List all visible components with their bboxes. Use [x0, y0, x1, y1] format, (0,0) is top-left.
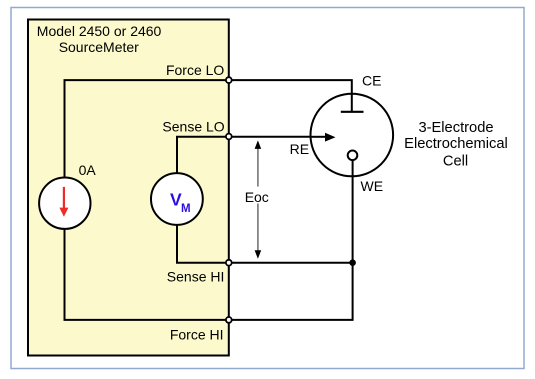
- terminal node Sense HI: [226, 260, 232, 266]
- terminal node Force LO: [226, 77, 232, 83]
- svg-text:Force HI: Force HI: [170, 326, 224, 342]
- svg-text:SourceMeter: SourceMeter: [59, 39, 139, 55]
- svg-text:Sense HI: Sense HI: [167, 269, 225, 285]
- svg-text:0A: 0A: [79, 162, 97, 178]
- wire Sense HI net: voltmeter bottom to junction: [177, 225, 353, 263]
- wire Force LO net: from current source top up, across to CE drop: [65, 80, 352, 178]
- CE electrode bar inside cell: [341, 111, 364, 113]
- svg-text:Force LO: Force LO: [166, 62, 224, 78]
- WE stem inside cell: [352, 160, 354, 176]
- svg-text:CE: CE: [362, 73, 381, 89]
- Eoc measurement arrow: [255, 140, 262, 258]
- label Model 2450 or 2460 SourceMeter: [37, 23, 162, 55]
- svg-text:Electrochemical: Electrochemical: [404, 136, 508, 152]
- junction dot WE/Sense HI: [349, 259, 356, 266]
- terminal node Sense LO: [226, 134, 232, 140]
- svg-text:M: M: [181, 203, 191, 215]
- svg-text:Eoc: Eoc: [245, 189, 269, 205]
- wire Force HI net: current source bottom, across, up to WE: [65, 160, 353, 320]
- CE electrode stem redrawn inside cell: [351, 94, 353, 112]
- terminal node Force HI: [226, 317, 232, 323]
- RE arrowhead: [325, 133, 336, 142]
- CE electrode bar: [341, 111, 364, 113]
- svg-text:RE: RE: [290, 141, 309, 157]
- svg-text:3-Electrode: 3-Electrode: [418, 120, 493, 136]
- svg-text:WE: WE: [361, 178, 384, 194]
- RE arrowhead inside cell: [311, 133, 336, 142]
- sourcemeter box: [28, 20, 229, 356]
- current source I1 (0A): [39, 178, 90, 229]
- svg-text:Model 2450 or 2460: Model 2450 or 2460: [37, 23, 162, 39]
- svg-text:Sense LO: Sense LO: [162, 119, 224, 135]
- wire Sense LO net: voltmeter top to RE arrow: [177, 137, 326, 174]
- svg-text:Cell: Cell: [443, 153, 468, 169]
- electrochemical cell body: [311, 94, 394, 177]
- voltmeter VM: [151, 173, 203, 225]
- label 3-Electrode Electrochemical Cell: [404, 120, 508, 169]
- WE electrode circle: [348, 151, 358, 161]
